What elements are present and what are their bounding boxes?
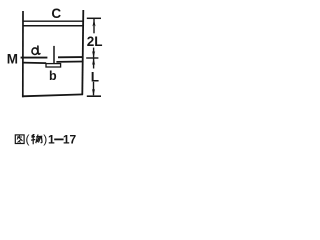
dimension stem below 2L: [93, 48, 95, 58]
wire top plate C upper line: [23, 20, 83, 22]
arrow down above bottom bar: [92, 89, 95, 96]
plate a right segment: [58, 56, 83, 58]
arrow up at cross bottom: [92, 58, 95, 65]
svg-text:b: b: [49, 69, 57, 83]
dimension top bar: [87, 17, 101, 19]
wire top plate C lower line: [23, 25, 83, 27]
caption glyph 物: [31, 134, 42, 144]
svg-text:C: C: [51, 6, 61, 21]
rod of plate b: [53, 46, 55, 64]
svg-text:(: (: [26, 132, 30, 146]
partition lower line right: [56, 61, 82, 63]
wire left wall of vessel: [22, 11, 24, 97]
dimension stem below L: [93, 82, 95, 96]
plate b base: [46, 64, 61, 67]
caption glyph 图: [15, 135, 24, 144]
arrow down at cross top: [92, 51, 95, 58]
svg-text:M: M: [7, 51, 18, 66]
plate a left segment: [21, 57, 48, 59]
dimension middle cross bar: [86, 57, 98, 59]
partition lower line left: [23, 62, 46, 65]
svg-text:17: 17: [63, 132, 77, 146]
caption em dash: [54, 138, 63, 140]
svg-text:): ): [43, 132, 47, 146]
svg-text:1: 1: [48, 132, 55, 146]
svg-text:L: L: [91, 69, 99, 84]
svg-text:2L: 2L: [87, 34, 103, 49]
wire bottom of vessel: [22, 94, 83, 96]
dimension stem upper 2L: [93, 19, 95, 33]
dimension bottom bar: [87, 95, 101, 97]
wire right wall of vessel: [82, 10, 83, 95]
arrow up below top bar: [92, 20, 95, 27]
label a: [32, 46, 40, 55]
dimension stem below cross: [93, 58, 95, 68]
